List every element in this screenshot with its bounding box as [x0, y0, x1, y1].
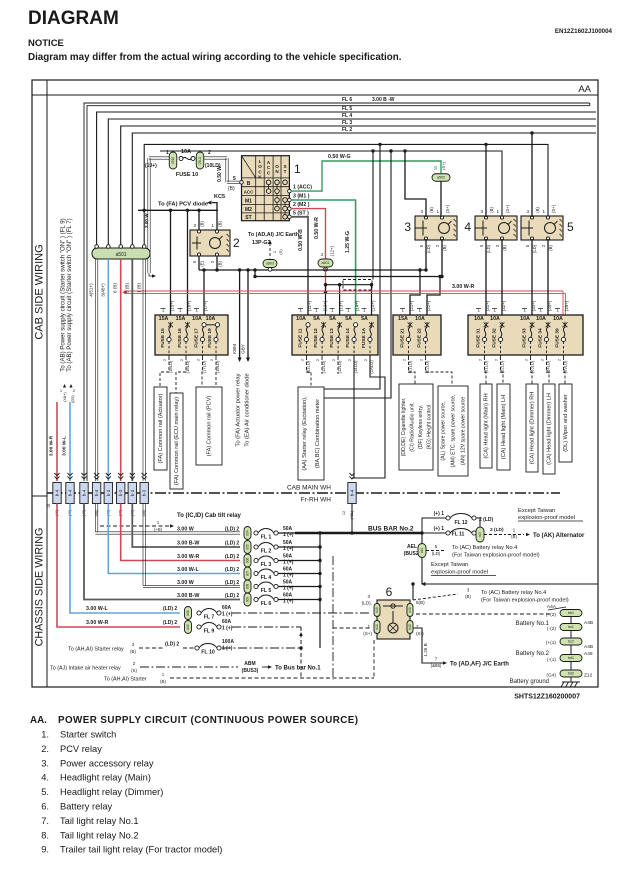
svg-text:5 (B): 5 (B) [125, 283, 130, 293]
svg-text:b06: b06 [246, 558, 250, 564]
svg-text:AA: AA [578, 84, 591, 95]
svg-text:1: 1 [211, 223, 214, 228]
svg-text:(LD) 2: (LD) 2 [225, 580, 239, 586]
svg-text:(B): (B) [548, 245, 553, 251]
svg-text:b-3: b-3 [130, 489, 135, 496]
svg-text:bd2: bd2 [568, 672, 574, 676]
svg-text:7.: 7. [41, 816, 49, 826]
connector bar a501 [92, 248, 150, 259]
svg-text:(FA) Common rail (PCV): (FA) Common rail (PCV) [207, 396, 213, 457]
svg-text:FL 9: FL 9 [204, 629, 215, 635]
svg-text:2: 2 [208, 150, 211, 156]
svg-text:FL 12: FL 12 [455, 520, 468, 526]
svg-text:(1ALD): (1ALD) [369, 360, 374, 374]
svg-text:(32+): (32+) [501, 300, 506, 311]
svg-text:ACC: ACC [244, 190, 254, 195]
wire 1.25 W-G M1 circuit [291, 200, 356, 322]
svg-text:FUSE 12: FUSE 12 [313, 328, 319, 348]
switch column link lines [268, 185, 270, 189]
svg-text:(DD,DE) Cigarette lighter,: (DD,DE) Cigarette lighter, [401, 398, 407, 457]
svg-text:(B): (B) [218, 261, 223, 267]
wire to J/C earth via a503 [269, 243, 271, 259]
svg-text:3: 3 [526, 209, 529, 214]
svg-text:FUSE 17: FUSE 17 [194, 328, 200, 348]
svg-text:To (AC) Battery relay No.4: To (AC) Battery relay No.4 [452, 545, 517, 551]
svg-text:3.00 B-W: 3.00 B-W [177, 593, 199, 599]
svg-text:FUSE 31: FUSE 31 [476, 328, 482, 348]
arrow line y584 [424, 583, 598, 585]
svg-text:3(45+): 3(45+) [101, 283, 106, 297]
svg-text:5(B): 5(B) [416, 600, 425, 605]
svg-text:Headlight relay (Main): Headlight relay (Main) [60, 773, 151, 783]
relay4 outputs [485, 239, 487, 322]
svg-text:10A: 10A [520, 316, 530, 322]
svg-text:5A: 5A [329, 316, 336, 322]
load box wiper washer [559, 384, 572, 462]
wire FL6 bus 3.00 B-W [84, 103, 590, 481]
svg-text:FL 2: FL 2 [342, 127, 352, 133]
fusible link FL3 [121, 504, 240, 561]
wire bus to AA starter relay box lower [324, 151, 391, 398]
svg-text:100A: 100A [222, 639, 234, 645]
svg-text:0.50 W-R: 0.50 W-R [314, 217, 320, 239]
white wire arrow into bus276 [149, 273, 152, 276]
svg-text:FUSE 39: FUSE 39 [555, 328, 561, 348]
svg-text:FL 2: FL 2 [261, 549, 272, 555]
svg-text:To (FA) PCV diode: To (FA) PCV diode [158, 202, 209, 208]
svg-text:(39+): (39+) [564, 300, 569, 311]
svg-text:(For Taiwan explosion-proof mo: (For Taiwan explosion-proof model) [452, 553, 540, 559]
svg-text:(34+): (34+) [547, 300, 552, 311]
svg-text:5 (ST ): 5 (ST ) [293, 211, 309, 217]
relay5 outputs [531, 239, 533, 322]
svg-text:10A: 10A [490, 316, 500, 322]
connector a501 inline on M2 wire [318, 259, 333, 267]
connector a502 [432, 174, 450, 182]
svg-text:b09: b09 [246, 597, 250, 603]
svg-text:(+(1): (+(1) [546, 640, 557, 646]
svg-text:(B): (B) [130, 649, 136, 654]
svg-text:(16+): (16+) [187, 300, 192, 311]
svg-text:(DL) Wiper and washer: (DL) Wiper and washer [563, 394, 569, 452]
svg-text:(AN) 12V spare power source: (AN) 12V spare power source [461, 397, 467, 465]
svg-text:3: 3 [404, 220, 411, 234]
starter switch (component 1) [242, 156, 290, 221]
load box headlight main RH [480, 384, 492, 468]
svg-text:(-(1): (-(1) [547, 657, 556, 663]
svg-text:b1f: b1f [478, 532, 482, 537]
svg-text:(LD) 2: (LD) 2 [165, 642, 179, 648]
svg-text:FUSE 13: FUSE 13 [329, 328, 335, 348]
svg-text:FUSE 21: FUSE 21 [400, 328, 406, 348]
svg-text:(S+): (S+) [363, 631, 372, 636]
svg-text:(For Taiwan explosion-proof mo: (For Taiwan explosion-proof model) [481, 598, 569, 604]
svg-text:(FA) Common rail (Actuator): (FA) Common rail (Actuator) [158, 393, 164, 463]
svg-text:(+(2): (+(2) [546, 612, 557, 618]
svg-text:(LD) 2: (LD) 2 [163, 620, 177, 626]
svg-text:M1: M1 [245, 198, 252, 204]
svg-text:To (AJ) Intake air heater rela: To (AJ) Intake air heater relay [50, 666, 121, 672]
svg-text:6.: 6. [41, 802, 49, 812]
svg-text:(LD): (LD) [486, 244, 491, 253]
svg-text:(DF) Keyless entry,: (DF) Keyless entry, [418, 405, 424, 449]
load box headlight dimmer RH [526, 384, 538, 472]
svg-text:b-3: b-3 [118, 489, 123, 496]
svg-text:(CA) Head light (Main) LH: (CA) Head light (Main) LH [501, 395, 507, 459]
load box headlight dimmer LH [543, 384, 555, 474]
svg-text:BUS BAR No.2: BUS BAR No.2 [368, 526, 414, 533]
svg-text:10A: 10A [192, 316, 202, 322]
svg-text:(LD): (LD) [532, 244, 537, 253]
svg-text:3.00 W-L: 3.00 W-L [177, 567, 199, 573]
svg-text:b04: b04 [246, 530, 250, 536]
svg-text:NOTICE: NOTICE [28, 38, 64, 49]
svg-text:3.00 W-R: 3.00 W-R [177, 554, 199, 560]
svg-text:(-(2): (-(2) [547, 626, 556, 632]
svg-text:FL 5: FL 5 [261, 588, 272, 594]
svg-text:FL 4: FL 4 [342, 113, 352, 119]
svg-text:To (AD,AF) J/C Earth: To (AD,AF) J/C Earth [450, 662, 509, 668]
svg-text:(17+): (17+) [203, 300, 208, 311]
wire FL5 [97, 112, 596, 246]
svg-text:CAB SIDE WIRING: CAB SIDE WIRING [34, 244, 46, 339]
svg-text:FUSE 32: FUSE 32 [492, 328, 498, 348]
svg-text:b-4: b-4 [350, 489, 355, 496]
svg-text:To Bus bar No.1: To Bus bar No.1 [275, 666, 321, 672]
fuse box FUSE15-19 [155, 315, 228, 355]
drops bus B to actuator/aircon arrows [239, 270, 241, 358]
svg-text:(33+): (33+) [531, 300, 536, 311]
short dashed stubs group B [321, 357, 323, 374]
svg-text:A4B: A4B [584, 620, 593, 626]
svg-text:PCV relay: PCV relay [60, 744, 102, 754]
svg-text:5: 5 [567, 220, 574, 234]
wire FL4 [108, 119, 596, 246]
relay6 output to JC earth [413, 628, 443, 663]
svg-text:FL 11: FL 11 [452, 532, 465, 538]
wire To (FA) PCV diode KC5 [212, 203, 217, 230]
svg-text:15A: 15A [159, 316, 169, 322]
svg-text:FUSE 11: FUSE 11 [298, 328, 304, 348]
svg-text:15A: 15A [176, 316, 186, 322]
svg-text:bd1: bd1 [568, 656, 574, 660]
load box DD cigarette lighter [399, 384, 433, 470]
relay5 riser from FL2 [531, 133, 533, 217]
wire 3.00 B-W gray vertical [131, 259, 133, 481]
relay 4 headlight relay main [475, 216, 517, 240]
diagram frame [32, 80, 598, 687]
svg-text:FUSE 34: FUSE 34 [538, 328, 544, 348]
svg-text:GBY: GBY [241, 344, 246, 354]
svg-text:(S): (S) [131, 668, 137, 673]
svg-text:To (EA) Air conditioner diode: To (EA) Air conditioner diode [245, 373, 251, 446]
svg-text:(B): (B) [228, 186, 235, 192]
svg-text:12: 12 [342, 511, 346, 515]
svg-text:b06: b06 [186, 610, 190, 616]
svg-text:(LD): (LD) [426, 244, 431, 253]
svg-text:FL 7: FL 7 [204, 615, 215, 621]
load box FA common rail ECU [170, 393, 183, 489]
svg-text:KC5: KC5 [214, 194, 225, 200]
svg-text:FL 4: FL 4 [261, 575, 272, 581]
relay4 risers [485, 144, 487, 217]
svg-text:(B): (B) [442, 245, 447, 251]
svg-text:Battery ground: Battery ground [510, 679, 549, 685]
svg-text:3: 3 [480, 209, 483, 214]
svg-text:1.25 W-G: 1.25 W-G [345, 231, 351, 253]
svg-text:explosion-proof model: explosion-proof model [431, 570, 488, 576]
svg-text:2.: 2. [41, 744, 49, 754]
drop to fuse 17 [203, 270, 205, 322]
svg-text:3: 3 [420, 209, 423, 214]
svg-text:3.00 W-L: 3.00 W-L [86, 606, 108, 612]
svg-text:KBM: KBM [232, 344, 237, 354]
load box FA common rail PCV [196, 387, 222, 465]
dashed leads fuse outputs to load boxes [160, 357, 169, 387]
svg-text:AEL: AEL [407, 544, 417, 550]
svg-text:(LD) 2: (LD) 2 [225, 527, 239, 533]
svg-text:To (AD,AI) J/C Earth: To (AD,AI) J/C Earth [248, 232, 299, 238]
svg-text:3.00 W-R: 3.00 W-R [49, 435, 55, 456]
svg-text:b-4: b-4 [55, 489, 60, 496]
svg-text:DIAGRAM: DIAGRAM [28, 8, 119, 29]
svg-text:1 (B): 1 (B) [137, 283, 142, 293]
svg-text:(+B): (+B) [154, 527, 163, 532]
svg-text:6 (B): 6 (B) [113, 283, 118, 293]
svg-text:b10: b10 [375, 624, 379, 630]
divider connectors row [54, 473, 59, 476]
svg-text:FL 1: FL 1 [261, 535, 272, 541]
svg-text:3.00 B -W: 3.00 B -W [372, 97, 395, 103]
black bus A y=210 [138, 209, 218, 211]
svg-text:T: T [284, 169, 287, 174]
svg-text:FUSE 15: FUSE 15 [160, 328, 166, 348]
svg-text:(AL) Spare power source,: (AL) Spare power source, [441, 401, 447, 460]
svg-text:To (AH,AI) Starter relay: To (AH,AI) Starter relay [68, 647, 124, 653]
svg-text:bc1: bc1 [568, 625, 574, 629]
svg-text:4(51+): 4(51+) [89, 283, 94, 297]
svg-text:2 (LD): 2 (LD) [479, 517, 494, 523]
svg-text:13P-G2: 13P-G2 [252, 240, 271, 246]
svg-text:1: 1 [496, 209, 499, 214]
svg-text:10A: 10A [415, 316, 425, 322]
svg-text:(LD),: (LD), [362, 601, 372, 606]
svg-text:(CA) Head light (Dimmer) LH: (CA) Head light (Dimmer) LH [547, 393, 553, 465]
svg-text:1: 1 [542, 209, 545, 214]
bus bar No.2 (FL1 feed line) [295, 532, 422, 534]
svg-text:5A: 5A [345, 316, 352, 322]
svg-text:FUSE 22: FUSE 22 [417, 328, 423, 348]
svg-text:3.00 W-L: 3.00 W-L [62, 436, 68, 456]
svg-text:10A: 10A [296, 316, 306, 322]
svg-text:bb1: bb1 [568, 611, 574, 615]
svg-text:b10: b10 [375, 607, 379, 613]
svg-text:3: 3 [367, 594, 370, 599]
svg-text:M2: M2 [245, 207, 252, 213]
fusible link FL9 [57, 504, 180, 628]
svg-text:10A: 10A [474, 316, 484, 322]
pin labels for AB wires [63, 384, 66, 388]
svg-text:(11+): (11+) [307, 300, 312, 311]
load box FA common rail actuator [154, 387, 167, 470]
svg-text:CHASSIS SIDE WIRING: CHASSIS SIDE WIRING [34, 528, 46, 647]
vertical collector to busbar [319, 533, 321, 648]
svg-text:16: 16 [47, 504, 51, 508]
svg-text:4: 4 [464, 220, 471, 234]
long vertical x373 from bus [372, 151, 374, 280]
battery connector bd2 [560, 670, 582, 677]
svg-text:A4B: A4B [584, 644, 593, 650]
svg-text:To (AC) Battery relay No.4: To (AC) Battery relay No.4 [481, 590, 546, 596]
svg-text:(12+): (12+) [330, 245, 335, 255]
svg-text:15A: 15A [398, 316, 408, 322]
svg-text:FL 3: FL 3 [342, 120, 352, 126]
svg-text:8.: 8. [41, 830, 49, 840]
taiwan dashed border [332, 556, 334, 680]
svg-text:(+) 1: (+) 1 [434, 526, 445, 532]
svg-text:POWER SUPPLY CIRCUIT (CONTINUO: POWER SUPPLY CIRCUIT (CONTINUOUS POWER S… [58, 715, 358, 726]
svg-text:0.50 W-G: 0.50 W-G [328, 154, 351, 160]
battery connector bb1 [560, 610, 582, 617]
svg-text:1: 1 [294, 162, 301, 176]
svg-text:5.: 5. [41, 787, 49, 797]
fuse17-19 bridge [206, 324, 216, 326]
svg-text:0510: 0510 [171, 157, 175, 164]
svg-text:(10+): (10+) [145, 163, 157, 169]
svg-text:1 (+): 1 (+) [222, 612, 233, 618]
svg-text:05LD: 05LD [198, 156, 202, 164]
svg-text:(13+): (13+) [339, 300, 344, 311]
svg-text:b05: b05 [246, 544, 250, 550]
svg-text:10A: 10A [181, 149, 191, 155]
fusible link FL1 [94, 504, 96, 532]
svg-text:Starter switch: Starter switch [60, 730, 116, 740]
wire a501 to red bus and fuse12 [325, 267, 327, 292]
svg-text:1 (ACC): 1 (ACC) [293, 185, 312, 191]
fusible link FL7 [70, 504, 180, 614]
relay 5 headlight relay dimmer [521, 216, 563, 240]
svg-text:(X8+): (X8+) [63, 392, 67, 402]
svg-text:b10: b10 [408, 624, 412, 630]
svg-text:b-4: b-4 [94, 489, 99, 496]
svg-text:b-4: b-4 [82, 489, 87, 496]
svg-text:(B): (B) [489, 207, 494, 213]
wire FL2 [132, 133, 596, 246]
svg-text:(CA) Head light (Main) RH: (CA) Head light (Main) RH [484, 393, 490, 458]
load box AA starter relay [298, 387, 324, 480]
wire bus to relay5 coil [144, 144, 548, 246]
battery connector bc1 [560, 624, 582, 631]
svg-text:FUSE 1A: FUSE 1A [361, 327, 367, 348]
svg-text:(14+): (14+) [355, 300, 360, 311]
svg-text:5A: 5A [361, 316, 368, 322]
svg-text:To (AK) Alternator: To (AK) Alternator [533, 533, 585, 539]
svg-text:b10: b10 [408, 607, 412, 613]
svg-text:2 (M2 ): 2 (M2 ) [293, 202, 310, 208]
svg-text:1: 1 [436, 209, 439, 214]
svg-text:b08: b08 [246, 584, 250, 590]
svg-text:(S+): (S+) [505, 204, 510, 213]
fusible link FL5 [142, 504, 144, 586]
svg-text:(S+): (S+) [441, 162, 446, 170]
svg-text:(B): (B) [465, 594, 471, 599]
svg-text:Trailer tail light relay (For: Trailer tail light relay (For tractor mo… [60, 845, 222, 855]
svg-text:Power accessory relay: Power accessory relay [60, 758, 154, 768]
fusible link FL6 [84, 504, 240, 600]
fuse FUSE 10 [149, 156, 170, 158]
svg-text:3: 3 [193, 223, 196, 228]
wire 3.00 W white vertical 1 [94, 259, 96, 481]
svg-text:To (FA) Actuator power relay: To (FA) Actuator power relay [236, 373, 242, 446]
svg-text:b-3: b-3 [142, 489, 147, 496]
fuse box FUSE21-22 [393, 315, 441, 355]
svg-text:A49: A49 [584, 651, 593, 657]
relay3 pin3 feed L [405, 151, 426, 217]
svg-text:EN12Z1602J100004: EN12Z1602J100004 [555, 28, 613, 35]
wire bus to AA starter relay box upper [324, 144, 380, 389]
svg-text:(S): (S) [278, 249, 283, 255]
svg-text:Except Taiwan: Except Taiwan [431, 562, 468, 568]
svg-text:FUSE 10: FUSE 10 [176, 172, 198, 178]
svg-text:(B): (B) [535, 207, 540, 213]
svg-text:FUSE 14: FUSE 14 [345, 328, 351, 348]
svg-text:To (AH,AI) Starter: To (AH,AI) Starter [104, 677, 147, 683]
svg-text:(+) 1: (+) 1 [434, 511, 445, 517]
svg-text:FL 6: FL 6 [261, 601, 272, 607]
wire 0.50 W-G ACC circuit [291, 161, 441, 191]
battery connector bd1 [560, 655, 582, 662]
svg-text:FL 3: FL 3 [261, 562, 272, 568]
svg-text:1.25 B: 1.25 B [423, 643, 428, 656]
fuse 1A LD output to connector b-4 [352, 356, 385, 478]
cab/chassis divider [32, 495, 47, 497]
wire 3.00 W white vertical 2 [142, 259, 144, 481]
svg-text:Headlight relay (Dimmer): Headlight relay (Dimmer) [60, 787, 163, 797]
svg-text:10A: 10A [536, 316, 546, 322]
svg-text:B: B [247, 181, 251, 187]
svg-text:ABM: ABM [244, 661, 255, 667]
fuse box FUSE31-39 [468, 315, 583, 355]
svg-text:3.00 W-R: 3.00 W-R [86, 620, 108, 626]
svg-text:Battery relay: Battery relay [60, 802, 113, 812]
svg-text:(CI) Radio/Audio unit,: (CI) Radio/Audio unit, [409, 402, 415, 452]
svg-text:b-4: b-4 [68, 489, 73, 496]
svg-text:(FA) Common rail (ECU main rel: (FA) Common rail (ECU main relay) [174, 397, 180, 485]
svg-text:(1A+): (1A+) [371, 300, 376, 311]
svg-text:FL 5: FL 5 [342, 106, 352, 112]
svg-text:(S-): (S-) [416, 631, 424, 636]
fusible link FL2 [132, 504, 240, 548]
svg-text:Battery No.2: Battery No.2 [516, 651, 550, 657]
svg-text:(LD) 2: (LD) 2 [163, 606, 177, 612]
svg-text:(LD) 2: (LD) 2 [225, 593, 239, 599]
svg-text:(22+): (22+) [426, 300, 431, 311]
svg-text:1: 1 [166, 150, 169, 156]
relay6 riser to arrow line [412, 584, 414, 600]
svg-text:a503: a503 [266, 262, 274, 266]
svg-text:(B): (B) [200, 221, 205, 227]
svg-text:explosion-proof model: explosion-proof model [518, 515, 575, 521]
svg-text:(LD) 2: (LD) 2 [225, 554, 239, 560]
svg-text:1.: 1. [41, 730, 49, 740]
svg-text:b09: b09 [186, 624, 190, 630]
drops from bus A to fuses 15/16 [170, 210, 172, 322]
fuse box FUSE11-1A [292, 315, 378, 355]
svg-text:10A: 10A [206, 316, 216, 322]
svg-text:Fr-RH WH: Fr-RH WH [301, 497, 332, 504]
svg-text:0.50 W: 0.50 W [217, 166, 223, 182]
svg-text:(&86): (&86) [431, 663, 442, 668]
